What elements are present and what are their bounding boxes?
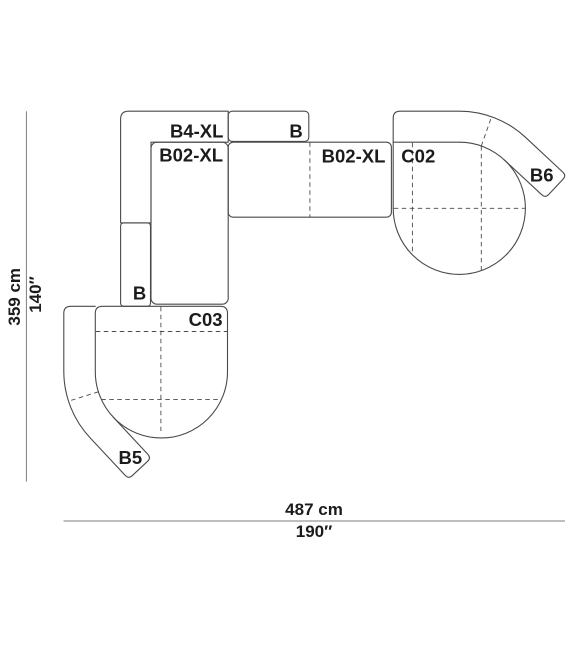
width dimension line — [64, 520, 566, 522]
C02 dashed horizontal diameter — [394, 207, 525, 209]
svg-text:B02-XL: B02-XL — [159, 145, 223, 166]
svg-text:B6: B6 — [530, 164, 554, 185]
svg-text:190″: 190″ — [296, 522, 333, 541]
C02/B6 fold dashed — [481, 117, 491, 146]
svg-text:C03: C03 — [189, 309, 223, 330]
svg-text:B5: B5 — [119, 447, 143, 468]
C03 dashed horizontal chord — [101, 398, 221, 400]
svg-text:487 cm: 487 cm — [285, 500, 343, 519]
svg-text:B4-XL: B4-XL — [170, 120, 223, 141]
svg-text:B: B — [133, 282, 146, 303]
backrest B4-XL — [121, 111, 229, 223]
svg-text:359 cm: 359 cm — [5, 268, 24, 326]
chaise C03 arm B5 — [64, 306, 150, 477]
chaise C03 body — [95, 306, 227, 438]
height dimension line — [25, 111, 27, 481]
chaise C02 circle — [393, 142, 525, 274]
svg-text:140″: 140″ — [26, 276, 45, 313]
backrest B (top band) — [228, 111, 309, 141]
C03 dashed vertical diameter — [160, 307, 162, 431]
C02 dashed vertical chord — [480, 146, 482, 271]
C02 backrest seam — [393, 141, 459, 143]
backrest B (left column) — [121, 223, 151, 306]
svg-text:C02: C02 — [401, 146, 435, 167]
seam dashed long seat — [309, 142, 311, 217]
seat B02-XL (horizontal) — [228, 142, 391, 217]
chaise C02 outline with arm B6 — [393, 111, 565, 208]
C02 dashed vertical seam — [411, 143, 413, 255]
seat B02-XL (vertical) — [151, 142, 228, 304]
C03 dashed horizontal seam — [96, 331, 227, 333]
C03/B5 fold dashed — [69, 392, 99, 401]
svg-text:B02-XL: B02-XL — [322, 146, 386, 167]
svg-text:B: B — [289, 120, 302, 141]
